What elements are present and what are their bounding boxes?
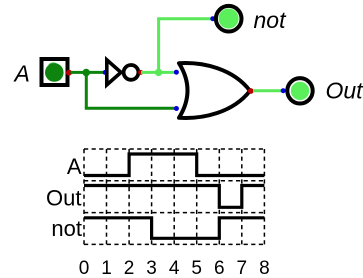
axis tick 7 [237,258,248,278]
svg-text:Out: Out [326,77,363,103]
waveform Out [84,186,264,208]
svg-text:7: 7 [237,258,248,278]
wire junction down [85,73,88,109]
input pin A [42,59,68,85]
svg-text:3: 3 [146,258,157,278]
wire OR out to Out pin [253,89,282,92]
blue input dot of NOT [103,70,108,75]
axis tick 2 [124,258,135,278]
svg-text:8: 8 [259,258,270,278]
node label not [254,7,288,33]
blue input dot of OR top [174,70,179,75]
trace label Out [46,186,81,211]
svg-text:6: 6 [214,258,225,278]
blue input dot of OR bottom [174,106,179,111]
svg-text:1: 1 [101,258,112,278]
wire top to not pin [157,17,211,20]
wire bottom to OR input [85,107,175,110]
svg-text:not: not [254,7,288,33]
waveform not [84,218,264,239]
trace label not [51,216,82,241]
node label Out [326,77,363,103]
blue input dot of pin not [210,16,215,21]
output pin Out [287,78,312,103]
wire J2 to OR top input [159,71,175,74]
red output dot of pin A [66,70,72,76]
svg-text:A: A [13,61,30,87]
blue input dot of pin Out [281,88,286,93]
wire NOT out to junction J2 [141,71,159,74]
axis tick 5 [191,258,202,278]
axis tick 0 [79,258,90,278]
wire junction to NOT input [86,71,104,74]
axis tick 3 [146,258,157,278]
wire A to junction [71,71,87,74]
timing grid dashed [84,149,264,244]
svg-text:Out: Out [46,186,81,211]
svg-text:A: A [67,154,82,179]
output pin not [216,6,242,32]
NOT gate U1 [107,60,139,85]
axis tick 8 [259,258,270,278]
axis tick 6 [214,258,225,278]
svg-text:0: 0 [79,258,90,278]
svg-text:2: 2 [124,258,135,278]
axis tick 1 [101,258,112,278]
waveform A [84,154,264,176]
svg-text:4: 4 [169,258,180,278]
axis tick 4 [169,258,180,278]
wire J2 up [157,19,160,73]
trace label A [67,154,82,179]
junction J2 [155,69,162,76]
red output dot of OR [248,88,254,94]
red output dot of NOT [138,70,143,75]
svg-text:not: not [51,216,82,241]
junction J1 [82,69,90,77]
OR gate U2 [179,63,250,118]
node label A [13,61,30,87]
svg-text:5: 5 [191,258,202,278]
